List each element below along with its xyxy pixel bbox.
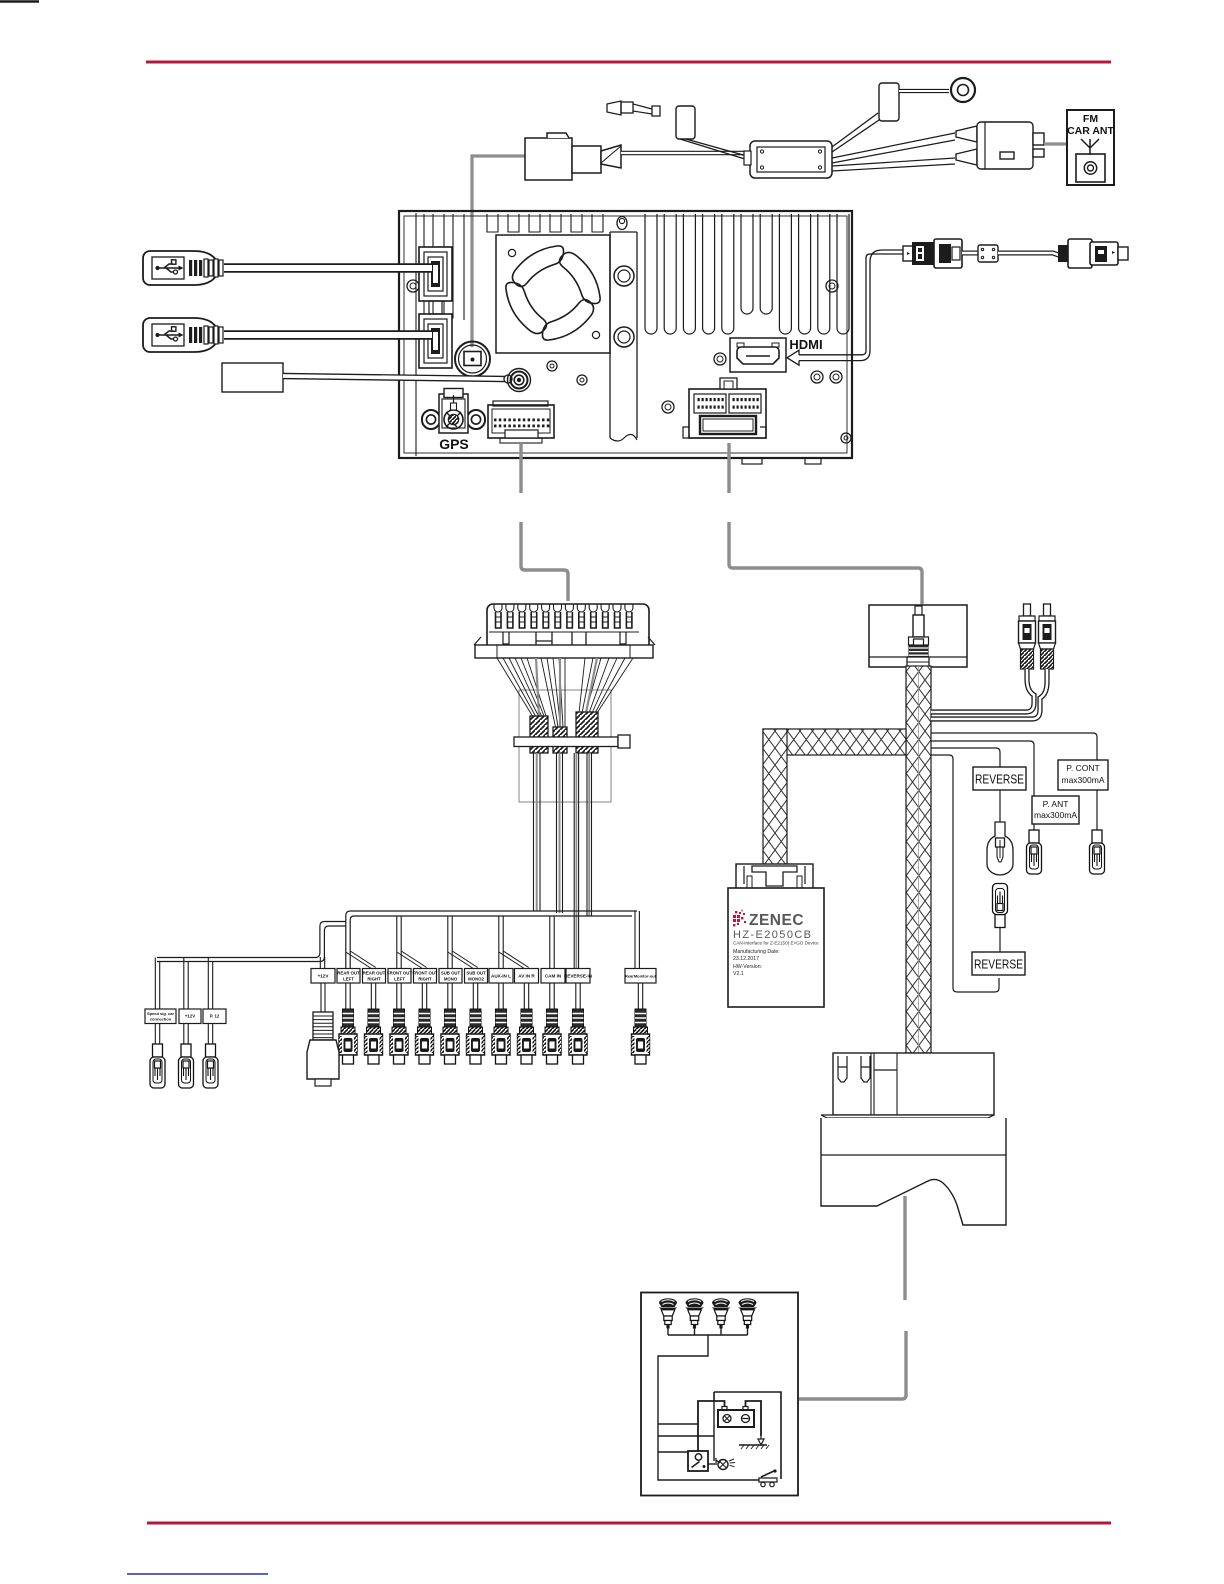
battery wiring bbox=[698, 1401, 761, 1451]
HDMI port bbox=[730, 338, 786, 372]
inline holder cylinder bbox=[676, 106, 695, 139]
USB cable 2 bbox=[143, 318, 222, 352]
label tails bbox=[155, 983, 642, 1044]
HDMI arrow bbox=[799, 355, 858, 361]
svg-text:HW-Version:: HW-Version: bbox=[733, 964, 762, 970]
sleeve tails bbox=[534, 753, 563, 913]
speaker wires bbox=[658, 1328, 772, 1480]
head unit chassis bbox=[399, 211, 852, 458]
footer blue rule bbox=[127, 1573, 268, 1575]
chassis feet bbox=[742, 458, 762, 464]
20-pin connector block bbox=[689, 389, 766, 438]
right sleeve tails straight to label bbox=[574, 753, 591, 968]
USB cable 1 bbox=[143, 251, 222, 285]
branch to ring terminal bbox=[832, 113, 878, 147]
bus drops bbox=[397, 911, 640, 969]
wire fuse to amplifier box bbox=[621, 151, 752, 156]
top red rule bbox=[146, 61, 1111, 64]
svg-text:+12V: +12V bbox=[185, 1014, 195, 1019]
svg-text:CAR ANT: CAR ANT bbox=[1067, 125, 1114, 137]
svg-text:+12V: +12V bbox=[318, 974, 330, 979]
page corner mark bbox=[0, 0, 39, 3]
svg-text:max300mA: max300mA bbox=[1034, 810, 1077, 820]
svg-text:REVERSE: REVERSE bbox=[975, 773, 1024, 787]
GPS connector bbox=[422, 410, 440, 429]
ignition switch bbox=[688, 1451, 708, 1471]
RCA pair right bbox=[1024, 604, 1031, 616]
HDMI cable curve bbox=[854, 254, 903, 355]
left terminal drops bbox=[155, 958, 212, 1010]
svg-text:FRONT OUT: FRONT OUT bbox=[412, 971, 437, 976]
ZENEC logo bbox=[733, 915, 736, 918]
wire to P.CONT bbox=[931, 733, 1097, 760]
svg-text:HZ-E2050CB: HZ-E2050CB bbox=[733, 929, 812, 941]
cable tie bar bbox=[514, 737, 618, 747]
vehicle wiring box bbox=[641, 1293, 798, 1496]
svg-text:REAR OUT: REAR OUT bbox=[363, 971, 386, 976]
harness fan wires bbox=[497, 658, 633, 727]
svg-text:RIGHT: RIGHT bbox=[418, 977, 432, 982]
svg-text:MONO2: MONO2 bbox=[468, 977, 484, 982]
HDMI cable right connector bbox=[1058, 245, 1070, 262]
ISO harness connector bbox=[487, 604, 649, 651]
svg-text:V2.1: V2.1 bbox=[733, 971, 744, 977]
+12V plug label bbox=[311, 969, 335, 984]
wires amp to DIN plug bbox=[832, 133, 955, 158]
bullet connector bbox=[987, 822, 1013, 875]
svg-text:CAM IN: CAM IN bbox=[545, 974, 562, 979]
REVERSE box 1 bbox=[973, 767, 1026, 790]
REVERSE box 2 bbox=[972, 952, 1025, 975]
svg-text:HDMI: HDMI bbox=[789, 337, 822, 352]
svg-text:connection: connection bbox=[150, 1017, 172, 1022]
left panel divider bbox=[415, 213, 417, 456]
quadlock lower bbox=[821, 1115, 994, 1118]
svg-text:GPS: GPS bbox=[439, 436, 469, 452]
svg-text:AUX-IN L: AUX-IN L bbox=[491, 974, 511, 979]
left bus 12V riser bbox=[320, 957, 324, 969]
svg-text:REVERSE: REVERSE bbox=[974, 958, 1023, 972]
lamp bbox=[708, 1463, 717, 1465]
rear monitor label bbox=[625, 969, 656, 984]
grey lead down bbox=[903, 1196, 906, 1300]
antenna socket square bbox=[1076, 154, 1105, 182]
radio antenna socket on unit bbox=[455, 342, 490, 377]
svg-text:FM: FM bbox=[1083, 113, 1098, 125]
P.ANT box bbox=[1032, 796, 1079, 824]
wire to P.ANT bbox=[931, 741, 1034, 796]
svg-text:max300mA: max300mA bbox=[1062, 775, 1105, 785]
svg-text:RIGHT: RIGHT bbox=[367, 977, 381, 982]
svg-text:AV IN R: AV IN R bbox=[518, 974, 535, 979]
fan blades bbox=[512, 246, 563, 287]
antenna symbol bbox=[1081, 139, 1099, 155]
ferrite bead bbox=[962, 251, 978, 256]
CAN box connector bbox=[736, 864, 813, 889]
DIN antenna plug bbox=[956, 122, 1044, 169]
main braided loom vertical bbox=[906, 666, 931, 1053]
braided arm to CAN box bbox=[763, 729, 906, 755]
svg-text:REVERSE-IN: REVERSE-IN bbox=[564, 974, 593, 979]
svg-text:Speed sig. car: Speed sig. car bbox=[147, 1011, 175, 1016]
ring terminal bbox=[951, 78, 975, 102]
battery bbox=[718, 1410, 754, 1427]
wire DIN to FM box (grey) bbox=[1044, 142, 1067, 145]
USB port 2 on unit bbox=[419, 314, 452, 368]
left heatsink ribs bbox=[424, 214, 433, 318]
RCA plugs row bbox=[339, 1009, 357, 1064]
left terminal labels bbox=[145, 1009, 176, 1024]
heat shrink sleeves bbox=[530, 716, 548, 753]
leader from 24-pin bbox=[519, 443, 522, 493]
HDMI cable left connector bbox=[903, 246, 913, 261]
brake pedal bbox=[759, 1478, 777, 1482]
quadlock upper bbox=[833, 1053, 994, 1115]
svg-text:P. ANT: P. ANT bbox=[1043, 799, 1069, 809]
fuse holder bbox=[525, 133, 621, 180]
svg-text:REAR OUT: REAR OUT bbox=[337, 971, 360, 976]
svg-text:SUB OUT: SUB OUT bbox=[466, 971, 486, 976]
right heatsink ribs bbox=[645, 214, 657, 334]
svg-text:SUB OUT: SUB OUT bbox=[441, 971, 461, 976]
wire to ring terminal bbox=[899, 89, 949, 93]
svg-text:FRONT OUT: FRONT OUT bbox=[387, 971, 412, 976]
microphone cable bbox=[283, 376, 505, 379]
bullet connector top bbox=[607, 101, 660, 116]
top short ribs bbox=[487, 214, 498, 232]
leader from 20-pin bbox=[727, 443, 730, 493]
microphone jack on unit bbox=[508, 369, 531, 392]
sleeve outline box bbox=[519, 690, 611, 802]
P.CONT box bbox=[1058, 760, 1108, 790]
svg-text:Manufacturing Date:: Manufacturing Date: bbox=[733, 949, 780, 955]
cable between bbox=[998, 253, 1071, 256]
screws bbox=[617, 217, 627, 230]
wire to REVERSE1 bbox=[931, 748, 1000, 767]
fan assembly frame bbox=[496, 235, 610, 353]
bottom red rule bbox=[147, 1522, 1111, 1525]
svg-text:P. 12: P. 12 bbox=[210, 1014, 220, 1019]
fan bracket bbox=[609, 232, 611, 438]
left bus to terminals bbox=[157, 922, 346, 958]
svg-text:LEFT: LEFT bbox=[343, 977, 354, 982]
ZENEC CAN interface box bbox=[728, 888, 824, 1007]
24-pin connector bbox=[488, 405, 554, 438]
svg-text:ZENEC: ZENEC bbox=[749, 912, 804, 929]
speakers bbox=[659, 1298, 678, 1328]
svg-text:23.12.2017: 23.12.2017 bbox=[733, 956, 759, 962]
antenna plug in box bbox=[915, 606, 922, 615]
svg-text:RearMonitor-out: RearMonitor-out bbox=[625, 974, 657, 979]
wire fuse-holder to radio (grey) bbox=[472, 156, 525, 347]
wire to REVERSE2 loop bbox=[931, 755, 999, 992]
main bus bbox=[346, 911, 637, 969]
external microphone box bbox=[222, 363, 283, 392]
mating spade bbox=[993, 884, 1008, 928]
left spade terminals bbox=[150, 1044, 165, 1088]
svg-text:P. CONT: P. CONT bbox=[1066, 763, 1099, 773]
svg-text:CAN-Interface for Z-E2150) E>G: CAN-Interface for Z-E2150) E>GO Device bbox=[733, 941, 819, 946]
svg-text:MONO: MONO bbox=[444, 977, 458, 982]
junction box bbox=[869, 605, 967, 667]
crimp sleeve bbox=[879, 83, 899, 121]
antenna amplifier box bbox=[750, 141, 832, 178]
ground symbol bbox=[758, 1436, 764, 1445]
12V power plug bbox=[313, 1012, 333, 1040]
svg-text:LEFT: LEFT bbox=[394, 977, 405, 982]
USB port 1 on unit bbox=[419, 247, 452, 301]
FM CAR ANT box bbox=[1067, 110, 1114, 185]
